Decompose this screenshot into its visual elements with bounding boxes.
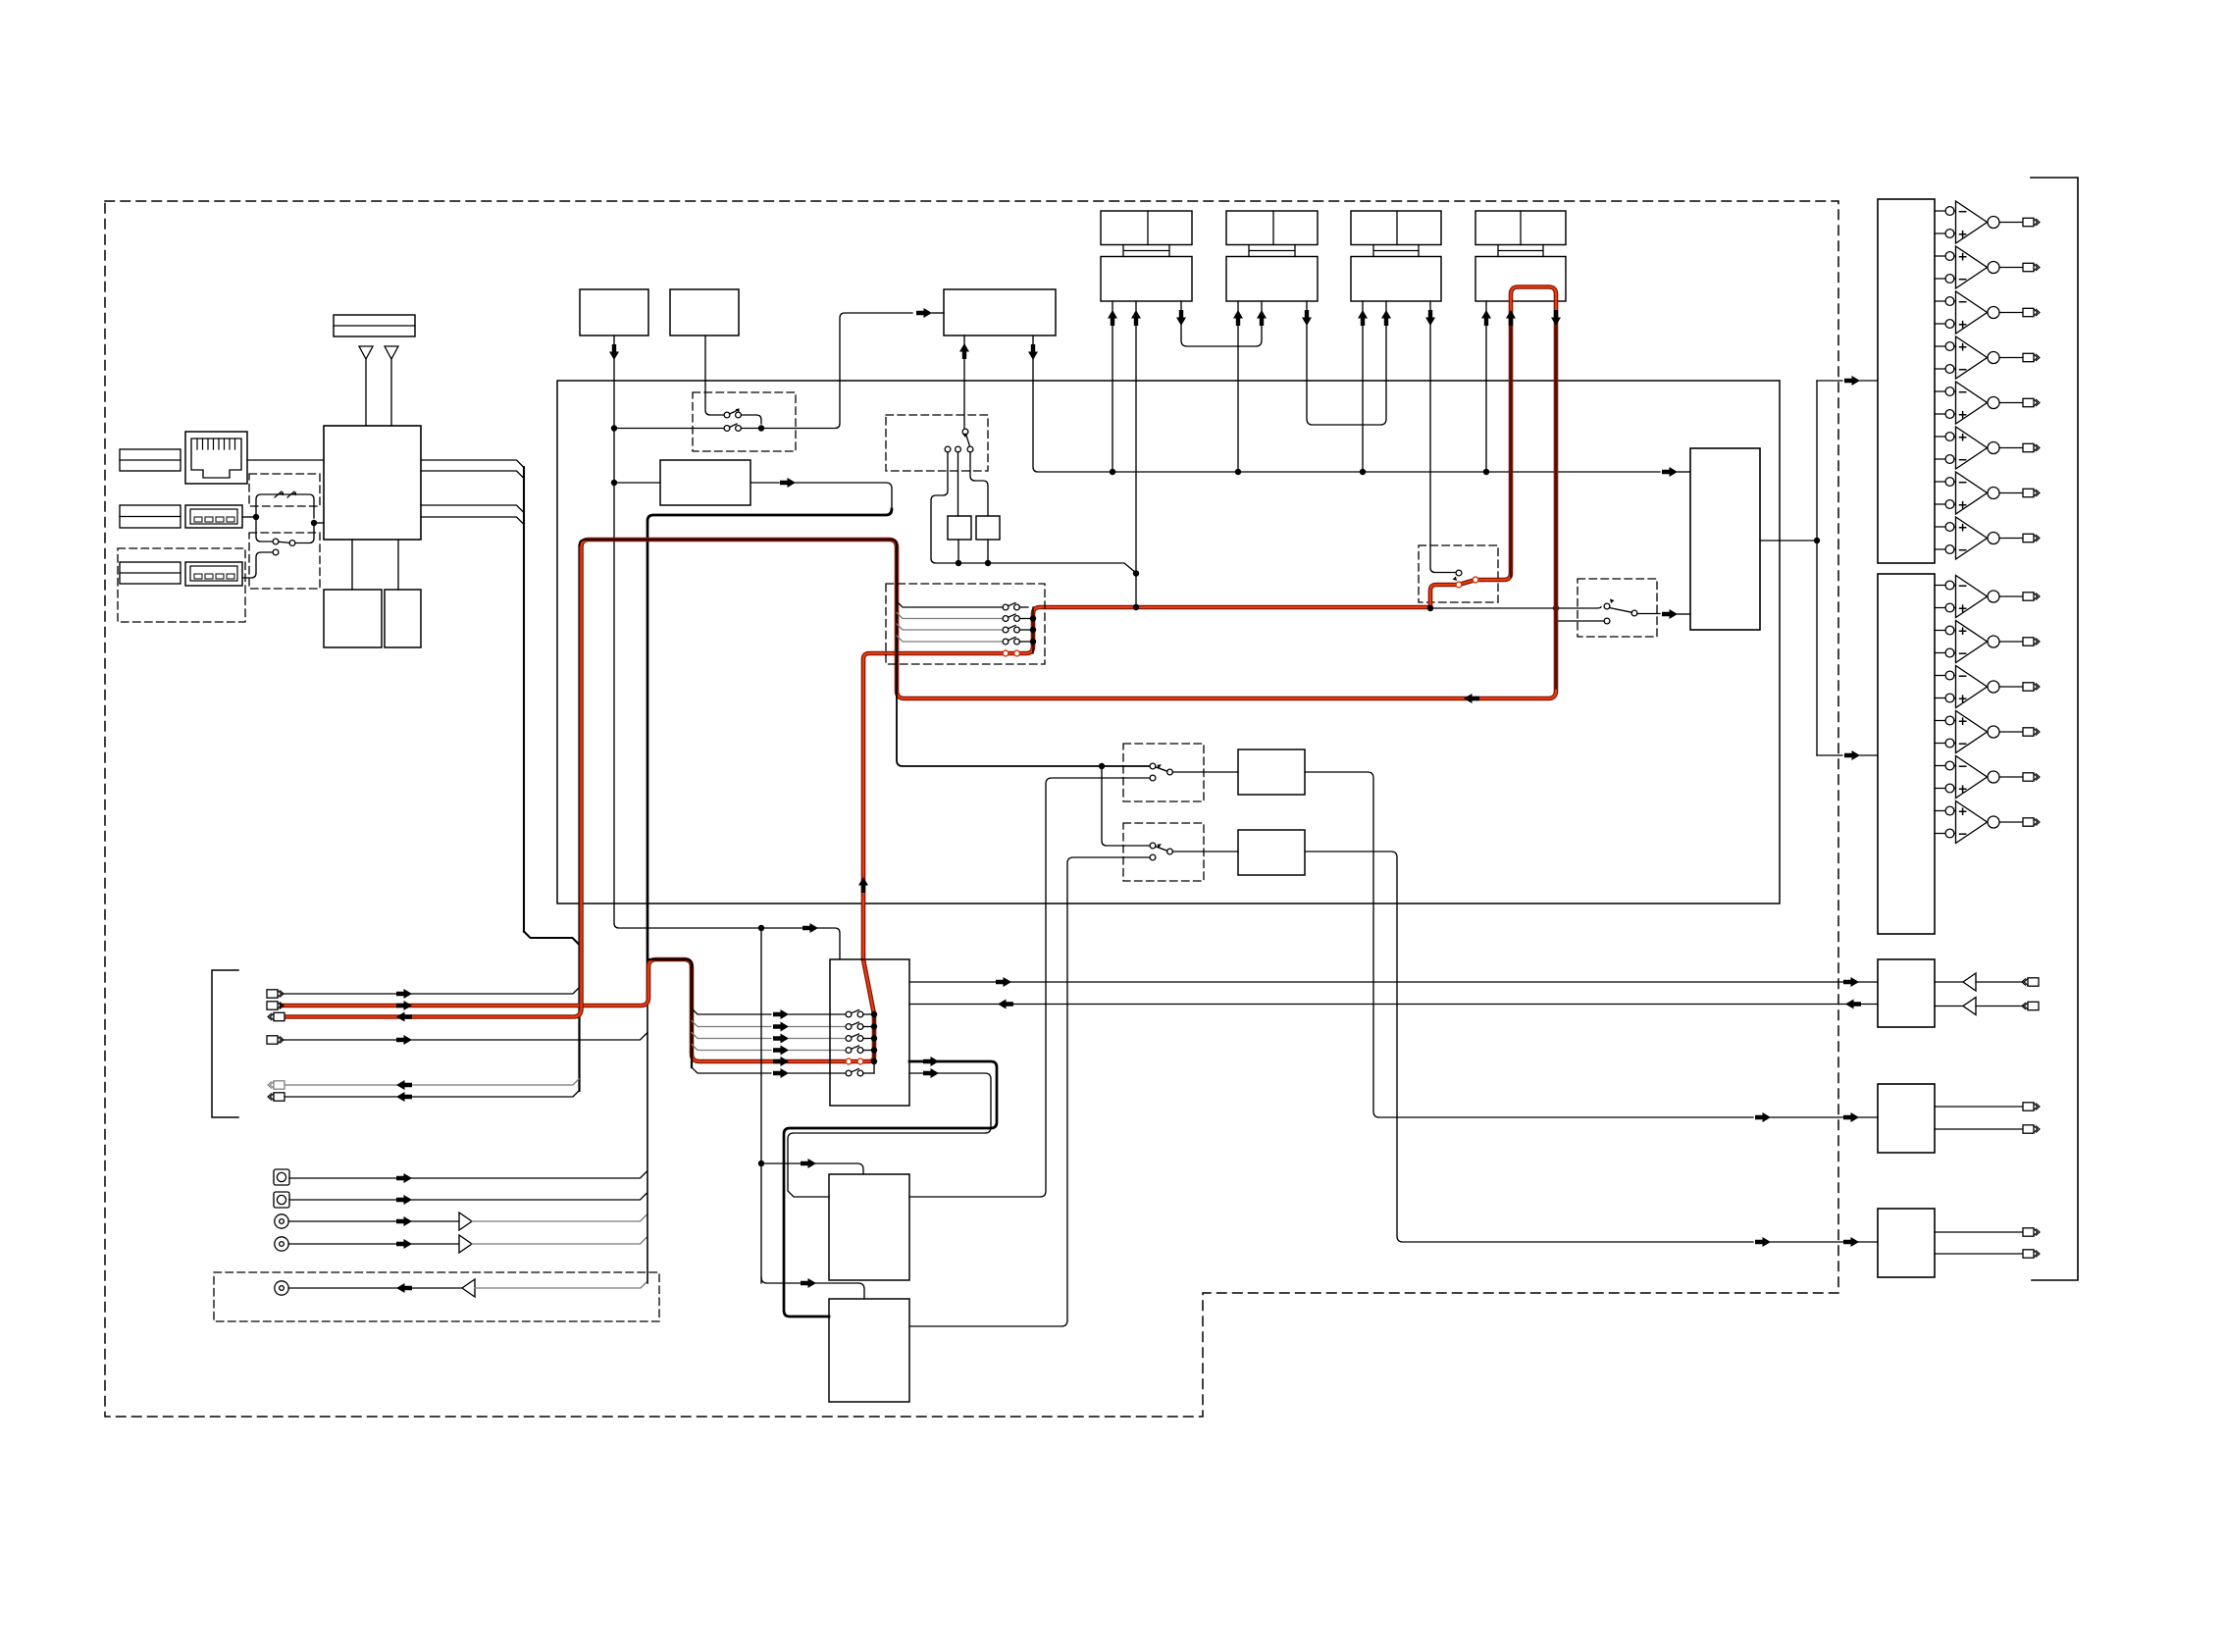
switch SB-A row2 contacts bbox=[724, 424, 741, 431]
arrow strip4 B up bbox=[1506, 310, 1516, 326]
bracket row5 in (gray) bbox=[268, 1079, 579, 1090]
op-amp out7 bbox=[1935, 472, 2040, 514]
antenna 2 bbox=[385, 346, 398, 426]
op-amp out8 bbox=[1935, 517, 2040, 559]
selector fan row3 gray bbox=[692, 1033, 771, 1039]
box R1 bbox=[948, 516, 971, 540]
switch SB-D common bbox=[1631, 610, 1637, 616]
wire USB-A to switch throw A bbox=[256, 517, 273, 542]
op-amp out5 bbox=[1935, 382, 2040, 424]
switch SB-D lower throw bbox=[1604, 618, 1610, 624]
switch SB-E row1 bbox=[1003, 603, 1028, 610]
box M2 bbox=[829, 1174, 909, 1280]
selector out to phones line bbox=[909, 981, 1878, 983]
box M3 bbox=[829, 1299, 909, 1402]
input selector box bbox=[830, 959, 909, 1106]
connector red in row bbox=[268, 1012, 285, 1020]
sub box B2 bbox=[385, 590, 421, 647]
red switch SB-C contacts bbox=[1456, 577, 1478, 588]
digital bus ring box bbox=[557, 381, 1780, 903]
bundle vertical x590 bbox=[578, 545, 580, 1091]
op-amp out11 bbox=[1935, 666, 2040, 708]
op-amp out9 bbox=[1935, 576, 2040, 618]
op-amp out4 bbox=[1935, 336, 2040, 379]
box T record engine bbox=[944, 289, 1056, 336]
wire into box T bbox=[932, 312, 944, 314]
switch USB throw B bbox=[273, 549, 279, 555]
switch SB-E row3 bbox=[1003, 626, 1030, 633]
sub box B1 bbox=[324, 590, 382, 647]
wire A1 down to selector control bbox=[614, 336, 840, 959]
strip2 link stubs bbox=[1249, 245, 1295, 257]
wire FX1 out to AES box bbox=[1305, 772, 1753, 1117]
selector bus nodes bbox=[871, 1011, 877, 1017]
bundle link to x590 bbox=[524, 932, 579, 945]
node red bus to SB-C bbox=[1427, 605, 1433, 611]
op-amp out10 bbox=[1935, 621, 2040, 663]
selector thick out to M3 bbox=[784, 1061, 997, 1316]
box A2 bbox=[670, 289, 739, 336]
AES out box bbox=[1878, 1084, 1935, 1153]
switch SB-C upper throw bbox=[1453, 570, 1462, 581]
wire USB common to U1 bbox=[295, 523, 314, 543]
arrow red out row bbox=[396, 1001, 412, 1010]
wire R rail to strip1 riser bbox=[958, 563, 1136, 573]
strip1 A riser bbox=[1112, 301, 1113, 472]
SB-E input fan row2 gray bbox=[897, 613, 1003, 619]
box EQ E1 bbox=[660, 460, 750, 505]
wire SB-B throw2 into R1 bbox=[957, 452, 959, 516]
thick record feed path bbox=[647, 509, 892, 1003]
selector switch row2 bbox=[846, 1022, 871, 1029]
switch SB-E row2 bbox=[1003, 614, 1030, 621]
red path SB-C riser outline bbox=[285, 287, 1556, 1017]
wire U1 to B2 bbox=[397, 540, 399, 590]
arrow red in row bbox=[396, 1012, 412, 1022]
strip4 C stub under red bbox=[1555, 301, 1557, 691]
selector fan row4 gray bbox=[692, 1045, 771, 1051]
input bundle n-link top bbox=[647, 959, 692, 1067]
node strip4C joins SB-D line bbox=[1553, 605, 1559, 611]
arrow on selector control line bbox=[802, 923, 818, 933]
arrow red riser up bbox=[858, 877, 868, 893]
channel strip 4 head box bbox=[1475, 211, 1566, 245]
op-amp out2 bbox=[1935, 246, 2040, 288]
op-amp out13 bbox=[1935, 756, 2040, 799]
strip2 C out loop to strip3 bbox=[1307, 301, 1386, 425]
wire A2 down to switch SB-A bbox=[705, 336, 724, 415]
selector fan row6 bbox=[692, 1067, 771, 1073]
node DAC rail bbox=[1814, 538, 1820, 543]
wire USB bypass path bbox=[256, 494, 314, 518]
USB-A socket icon 2 bbox=[185, 562, 242, 586]
bracket connector group frame bbox=[212, 970, 238, 1117]
wire R2 out bbox=[987, 540, 989, 563]
rca input L with buffer bbox=[275, 1213, 647, 1230]
SB-E input fan row4 gray bbox=[897, 636, 1003, 642]
node dist strip3 bbox=[1360, 469, 1366, 475]
phones amp box bbox=[1878, 959, 1935, 1027]
connector red out row bbox=[267, 1002, 284, 1009]
op-amp out14 bbox=[1935, 801, 2040, 844]
wire SB-B throw3 into R2 bbox=[970, 452, 988, 516]
red record path outline bbox=[282, 607, 1430, 1061]
AES out line 2 bbox=[1935, 1125, 2040, 1133]
dashed box SB-E bbox=[886, 584, 1045, 664]
strip4 link stubs bbox=[1498, 245, 1543, 257]
wire tap to M3 top bbox=[761, 1277, 864, 1299]
channel strip 1 main box bbox=[1101, 257, 1192, 302]
strip3 C down to switch SB-C bbox=[1430, 301, 1456, 573]
strip2 A riser bbox=[1237, 301, 1239, 472]
SPDIF out line 2 bbox=[1935, 1250, 2040, 1258]
wire into REC input1 bbox=[1678, 471, 1690, 473]
wire tap to M2 top bbox=[761, 1163, 863, 1174]
strip1 C out loop to strip2 bbox=[1181, 301, 1262, 346]
SB-E input fan row1 bbox=[897, 601, 1003, 607]
wire SB-A row1 to node bbox=[742, 415, 762, 424]
node USB-A junction bbox=[253, 514, 259, 520]
switch SB-G contacts bbox=[1150, 843, 1172, 860]
wire SB-D lower throw to strip4C vertical bbox=[1556, 620, 1604, 622]
DAC rail vertical bbox=[1816, 381, 1818, 755]
node R rail join bbox=[1133, 570, 1139, 576]
wire USB-B to switch throw B bbox=[242, 552, 273, 578]
channel strip 3 main box bbox=[1351, 257, 1441, 302]
switch USB common bbox=[289, 541, 295, 546]
wire EQ out bbox=[750, 482, 779, 484]
bracket row6 in bbox=[268, 1091, 579, 1102]
ethernet cable plug icon bbox=[120, 449, 181, 471]
selector switch row4 bbox=[846, 1046, 871, 1053]
node dist strip2 bbox=[1235, 469, 1241, 475]
wire SB-B throw1 to output rail bbox=[931, 452, 956, 563]
dashed box SB-D bbox=[1578, 579, 1657, 637]
switch SB-E row4 bbox=[1003, 638, 1030, 645]
rca input R with buffer bbox=[275, 1235, 647, 1253]
monitor black return path bbox=[580, 540, 1151, 766]
wire RJ45 to U1 bbox=[247, 459, 324, 461]
node SB-F input branch bbox=[1099, 763, 1105, 769]
rack bracket right bbox=[2031, 178, 2078, 1280]
red switch SB-E row5 contacts bbox=[1003, 650, 1019, 656]
wire bus line to SB-D bbox=[1430, 607, 1601, 609]
arrow A1 down bbox=[609, 344, 619, 360]
phones channel L bbox=[1935, 973, 2039, 991]
box R2 bbox=[976, 516, 1000, 540]
dashed box USB bypass bbox=[249, 474, 320, 506]
dashed box USB switch bbox=[249, 533, 320, 589]
red switch selector row5 contacts bbox=[846, 1058, 863, 1064]
SB-E bus nodes bbox=[1030, 615, 1036, 621]
dashed box SB-B bbox=[886, 415, 988, 471]
strip3 A riser bbox=[1362, 301, 1364, 472]
switch SB-D lever bbox=[1610, 608, 1632, 613]
wire branch down to SB-G bbox=[1102, 766, 1150, 846]
dashed box SB-F bbox=[1123, 744, 1204, 801]
node strip1B red bus bbox=[1133, 604, 1139, 610]
wire box T distribution out bbox=[1033, 336, 1660, 472]
wire U1 to B1 bbox=[351, 540, 353, 590]
channel strip 2 head box bbox=[1226, 211, 1318, 245]
U1 right outputs to bundle bbox=[421, 460, 524, 468]
selector bus bbox=[873, 1014, 875, 1073]
selector switch row1 bbox=[846, 1010, 871, 1017]
phones return line bbox=[909, 1004, 1878, 1006]
selector switch row3 bbox=[846, 1034, 871, 1041]
wire SB-A common to box T bbox=[742, 313, 913, 429]
wire REC out to DAC rail bbox=[1760, 540, 1817, 542]
antenna module box bbox=[334, 315, 415, 336]
switch USB lever bbox=[279, 542, 289, 542]
switch SB-B common contact bbox=[962, 429, 968, 435]
box REC interface bbox=[1690, 448, 1760, 630]
wire M3 link to SB-G bbox=[909, 857, 1150, 1326]
analog input bundle vertical x660 lower bbox=[647, 1003, 648, 1283]
node R1 out bbox=[956, 560, 961, 566]
wire node to U1 bbox=[314, 522, 324, 524]
wire DAC2 feed bbox=[1817, 754, 1842, 756]
channel strip 3 head box bbox=[1351, 211, 1441, 245]
arrow into box T bbox=[916, 308, 932, 318]
selector fan row2 gray bbox=[692, 1021, 771, 1027]
AES out line 1 bbox=[1935, 1103, 2040, 1110]
arrow EQ out bbox=[780, 478, 796, 488]
wire DAC1 feed bbox=[1817, 380, 1842, 382]
op-amp out12 bbox=[1935, 711, 2040, 753]
strip1 B riser bbox=[1135, 301, 1137, 607]
toslink connector 2 bbox=[274, 1192, 647, 1208]
arrow into REC input1 bbox=[1662, 467, 1678, 477]
RJ45 jack icon bbox=[185, 432, 247, 484]
strip3 link stubs bbox=[1373, 245, 1419, 257]
channel strip 1 head box bbox=[1101, 211, 1192, 245]
node A1 to EQ bbox=[611, 480, 617, 486]
antenna 1 bbox=[359, 346, 373, 426]
strip4 B stub under red bbox=[1510, 301, 1512, 577]
dashed box rca monitor out bbox=[214, 1272, 659, 1321]
node R2 out bbox=[985, 560, 991, 566]
node dist strip4 bbox=[1483, 469, 1489, 475]
node tap M2 bbox=[758, 1161, 764, 1166]
strip4 stub cores over red bbox=[1511, 325, 1556, 689]
box FX1 bbox=[1238, 749, 1305, 795]
SPDIF out box bbox=[1878, 1209, 1935, 1277]
selector row arrows bbox=[773, 1009, 789, 1019]
tick marks on bypass bbox=[275, 491, 294, 497]
switch SB-F contacts bbox=[1150, 763, 1172, 781]
dashed box SB-G bbox=[1123, 823, 1204, 881]
wire M2 out to SB-F bbox=[909, 778, 1150, 1197]
node A1 to switch row2 bbox=[611, 425, 617, 431]
USB cable plug icon 3 bbox=[120, 562, 181, 584]
rca monitor out with buffer bbox=[275, 1279, 647, 1297]
toslink connector 1 bbox=[274, 1169, 647, 1185]
node dist strip1 bbox=[1110, 469, 1115, 475]
arrow up into box T bbox=[959, 343, 969, 359]
main controller box U1 bbox=[324, 426, 421, 540]
phones channel R bbox=[1935, 998, 2039, 1015]
selector thin out to M2 bbox=[788, 1073, 991, 1197]
selector fan row1 bbox=[692, 1008, 771, 1014]
channel strip 2 main box bbox=[1226, 257, 1318, 302]
arrow box T dist down bbox=[1028, 344, 1038, 360]
SB-E bus bbox=[1032, 607, 1034, 653]
box FX2 bbox=[1238, 830, 1305, 875]
wire A1 node to EQ bbox=[614, 482, 660, 484]
USB-A socket icon 1 bbox=[185, 505, 242, 528]
node selector line branch bbox=[758, 925, 764, 931]
switch SB-D upper throw bbox=[1604, 599, 1614, 609]
SB-E input fan row3 gray bbox=[897, 624, 1003, 630]
bracket row4 out bbox=[267, 1033, 647, 1046]
DAC block 1 bbox=[1878, 199, 1935, 563]
DAC block 2 bbox=[1878, 574, 1935, 934]
wire box T monitor up line bbox=[963, 336, 965, 429]
op-amp out1 bbox=[1935, 201, 2040, 243]
bundle vertical x534 bbox=[523, 467, 525, 932]
selector switch row6 bbox=[846, 1069, 874, 1076]
op-amp out3 bbox=[1935, 291, 2040, 334]
arrow red monitor left bbox=[1464, 694, 1479, 703]
wire SB-G common to FX2 bbox=[1172, 851, 1238, 852]
strip1 link stubs bbox=[1123, 245, 1169, 257]
wire USB-A to node bbox=[242, 516, 256, 518]
bracket row1 out bbox=[267, 988, 579, 999]
node USB out junction bbox=[311, 520, 317, 526]
arrow strip4 C down bbox=[1551, 310, 1561, 326]
wire EQ out loopback bbox=[796, 483, 892, 509]
dashed box SB-A bbox=[693, 392, 796, 451]
USB cable plug icon 2 bbox=[120, 505, 181, 528]
SPDIF out line 1 bbox=[1935, 1228, 2040, 1236]
wire SB-D common to REC bbox=[1637, 613, 1660, 615]
outer dashed enclosure border bbox=[105, 201, 1838, 1417]
wire FX2 out to SPDIF box bbox=[1305, 852, 1753, 1242]
wire SB-A row2 from A1 node bbox=[614, 428, 724, 430]
selector row lines into box bbox=[789, 1013, 846, 1015]
switch SB-B lever bbox=[966, 435, 970, 446]
box A1 bbox=[580, 289, 648, 336]
channel strip 4 main box bbox=[1475, 257, 1566, 302]
wire SB-F common to FX1 bbox=[1172, 771, 1238, 773]
wire R1 out bbox=[957, 540, 959, 563]
op-amp out6 bbox=[1935, 427, 2040, 469]
node SB-A common bbox=[758, 425, 764, 431]
dashed box around USB port 3 bbox=[118, 548, 245, 622]
switch SB-A row1 contacts bbox=[724, 408, 741, 418]
control tap vertical bbox=[760, 928, 762, 1283]
strip4 A riser bbox=[1485, 301, 1487, 472]
switch USB throw A bbox=[273, 539, 279, 544]
switch SB-B throws bbox=[945, 446, 973, 452]
dashed box SB-C bbox=[1419, 545, 1498, 602]
